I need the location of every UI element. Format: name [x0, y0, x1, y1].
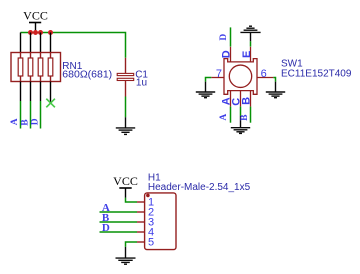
SW1 pin 7 (left): [211, 77, 224, 79]
wire pin C to ground: [240, 107, 242, 116]
svg-text:D: D: [219, 34, 229, 41]
svg-text:5: 5: [148, 236, 154, 248]
junction at VCC stem: [33, 30, 38, 35]
SW1 pin D (top left): [230, 47, 232, 62]
wire net A (SW1): [230, 107, 232, 123]
H1 pin 4 stub: [137, 231, 145, 233]
svg-text:B: B: [240, 97, 252, 105]
svg-text:A: A: [219, 114, 229, 121]
svg-text:B: B: [20, 119, 30, 126]
wire net A (H1): [100, 211, 138, 213]
wire net D (RN1): [40, 101, 42, 129]
wire pin6 to ground: [273, 78, 275, 82]
wire RN1 bottom pin stub net B: [30, 82, 32, 102]
wire pin7 to ground: [206, 78, 212, 82]
svg-text:VCC: VCC: [113, 174, 138, 188]
wire net B (H1): [100, 221, 138, 223]
svg-text:E: E: [241, 51, 253, 58]
wire pin 5 to ground: [126, 242, 138, 247]
wire RN1 bottom pin stub net D: [40, 82, 42, 102]
capacitor C1: [117, 58, 134, 97]
wire net D (H1): [100, 231, 138, 233]
svg-text:6: 6: [261, 68, 267, 80]
resistor network RN1: [11, 53, 61, 82]
wire RN1 top pin 3: [40, 33, 42, 53]
svg-text:A: A: [10, 118, 20, 125]
power flag VCC (top left): [23, 9, 48, 33]
svg-text:680Ω(681): 680Ω(681): [62, 69, 112, 81]
wire pin E to ground: [250, 41, 252, 46]
svg-text:D: D: [30, 118, 40, 125]
wire RN1 top pin 4: [50, 33, 52, 53]
wire VCC to pin 1: [126, 198, 138, 202]
svg-text:VCC: VCC: [23, 9, 48, 23]
junction RN1 pin 4: [48, 30, 53, 35]
no-connect X on RN1 pin 5: [46, 99, 55, 108]
ground symbol right of SW1: [266, 82, 285, 98]
SW1 pin C (bottom middle): [240, 91, 242, 107]
power flag VCC (header): [113, 174, 138, 198]
wire RN1 bottom pin stub no-connect: [50, 82, 52, 103]
H1 pin 1 stub: [137, 201, 145, 203]
wire net D (SW1): [230, 27, 232, 46]
SW1 pin A (bottom left): [230, 91, 232, 107]
svg-text:EC11E152T409: EC11E152T409: [281, 69, 352, 80]
svg-text:D: D: [221, 50, 233, 58]
svg-text:B: B: [240, 114, 250, 121]
H1 pin 2 stub: [137, 211, 145, 213]
wire net A (RN1): [20, 101, 22, 129]
H1 pin 3 stub: [137, 221, 145, 223]
wire RN1 top pin 1: [20, 33, 22, 53]
svg-text:D: D: [102, 222, 110, 234]
wire net VCC horizontal bus: [21, 33, 126, 58]
switch SW1 body: [224, 59, 257, 95]
wire RN1 top pin 2: [30, 33, 32, 53]
junction RN1 pin 3: [38, 30, 43, 35]
wire RN1 bottom pin stub net A: [20, 82, 22, 102]
ground symbol left of SW1: [196, 82, 215, 98]
wire C1 to ground: [125, 97, 127, 118]
pin 1 marker dot: [146, 194, 150, 198]
SW1 pin B (bottom right): [250, 91, 252, 107]
ground symbol below SW1: [231, 116, 250, 133]
ground symbol above SW1 (inverted): [240, 26, 260, 41]
H1 pin 5 stub: [137, 241, 145, 243]
ground symbol below H1: [116, 247, 136, 264]
ground symbol below C1: [116, 117, 135, 134]
svg-text:Header-Male-2.54_1x5: Header-Male-2.54_1x5: [148, 182, 251, 193]
junction RN1 pin 2: [28, 30, 33, 35]
SW1 pin E (top right): [250, 47, 252, 62]
header H1 body: [145, 193, 176, 250]
svg-text:1u: 1u: [136, 77, 147, 88]
svg-text:7: 7: [216, 68, 222, 80]
wire net B (RN1): [30, 101, 32, 129]
wire net B (SW1): [250, 107, 252, 123]
SW1 pin 6 (right): [257, 77, 273, 79]
